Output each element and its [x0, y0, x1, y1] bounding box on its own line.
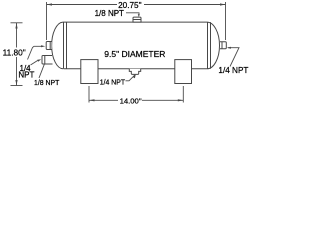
- svg-text:NPT: NPT: [18, 71, 34, 80]
- svg-text:1/4 NPT: 1/4 NPT: [218, 66, 248, 75]
- svg-text:1/4 NPT: 1/4 NPT: [100, 79, 126, 86]
- svg-text:1/8 NPT: 1/8 NPT: [95, 9, 124, 18]
- svg-text:14.00": 14.00": [120, 97, 142, 106]
- svg-text:11.80": 11.80": [3, 47, 26, 57]
- svg-text:1/8 NPT: 1/8 NPT: [34, 80, 60, 87]
- svg-text:9.5" DIAMETER: 9.5" DIAMETER: [104, 49, 165, 59]
